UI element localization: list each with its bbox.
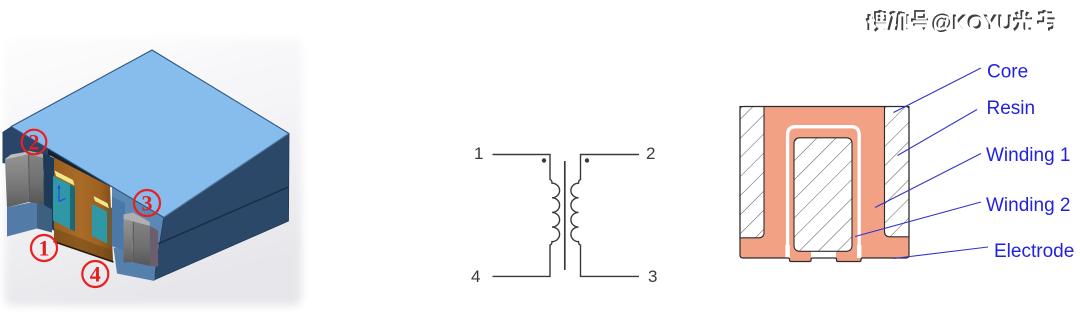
svg-text:1: 1 <box>39 236 50 261</box>
svg-text:Core: Core <box>987 62 1028 83</box>
svg-text:2: 2 <box>29 130 40 155</box>
svg-text:Winding 1: Winding 1 <box>986 145 1071 166</box>
svg-text:Electrode: Electrode <box>994 241 1074 262</box>
svg-text:3: 3 <box>142 191 153 216</box>
svg-text:4: 4 <box>90 262 101 287</box>
svg-text:4: 4 <box>471 267 480 286</box>
svg-text:Resin: Resin <box>987 98 1036 119</box>
svg-text:Winding 2: Winding 2 <box>986 195 1071 216</box>
svg-text:3: 3 <box>648 267 657 286</box>
svg-text:2: 2 <box>646 144 655 163</box>
svg-text:1: 1 <box>474 144 483 163</box>
